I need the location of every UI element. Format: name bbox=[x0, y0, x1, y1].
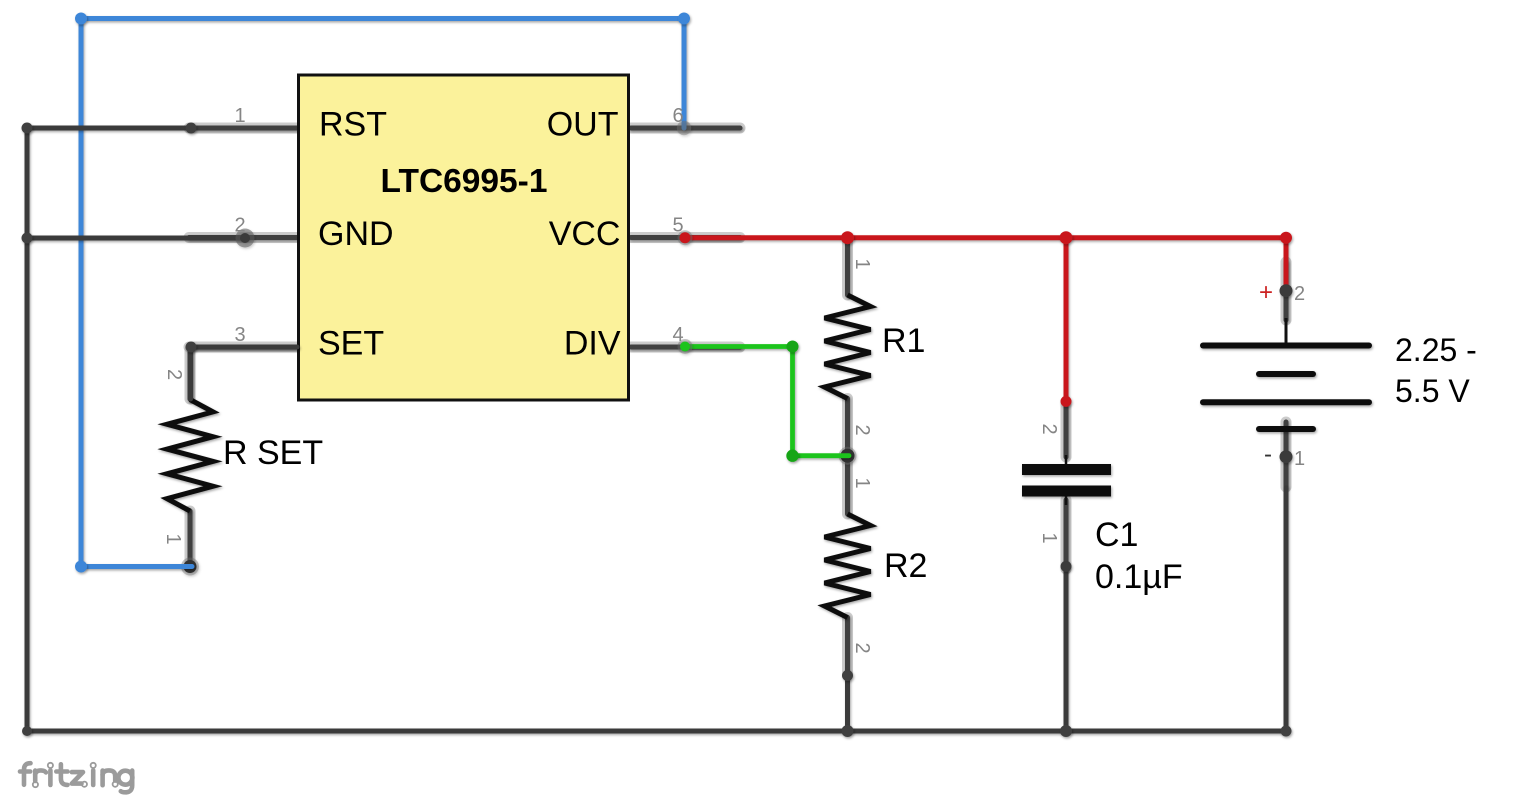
svg-text:1: 1 bbox=[234, 105, 245, 127]
svg-text:1: 1 bbox=[851, 477, 873, 488]
svg-text:1: 1 bbox=[162, 533, 184, 544]
svg-text:-: - bbox=[1264, 441, 1272, 468]
svg-text:VCC: VCC bbox=[549, 215, 621, 253]
svg-text:LTC6995-1: LTC6995-1 bbox=[381, 163, 548, 200]
svg-text:R1: R1 bbox=[882, 322, 925, 360]
svg-text:R2: R2 bbox=[884, 547, 927, 585]
svg-text:+: + bbox=[1259, 279, 1273, 306]
svg-text:RST: RST bbox=[319, 106, 387, 144]
svg-text:5.5 V: 5.5 V bbox=[1395, 373, 1470, 409]
svg-text:GND: GND bbox=[318, 215, 394, 253]
svg-text:3: 3 bbox=[234, 324, 245, 346]
svg-text:4: 4 bbox=[672, 324, 683, 346]
svg-text:2: 2 bbox=[1294, 283, 1305, 305]
svg-text:1: 1 bbox=[1038, 532, 1060, 543]
svg-text:1: 1 bbox=[851, 258, 873, 269]
svg-text:2: 2 bbox=[851, 424, 873, 435]
svg-text:0.1µF: 0.1µF bbox=[1095, 558, 1183, 596]
svg-text:2: 2 bbox=[163, 369, 185, 380]
svg-text:2: 2 bbox=[234, 215, 245, 237]
svg-text:C1: C1 bbox=[1095, 516, 1138, 554]
svg-text:1: 1 bbox=[1294, 448, 1305, 470]
svg-text:2.25 -: 2.25 - bbox=[1395, 332, 1477, 368]
svg-text:R SET: R SET bbox=[223, 434, 323, 472]
svg-text:5: 5 bbox=[672, 215, 683, 237]
svg-text:OUT: OUT bbox=[547, 106, 619, 144]
svg-text:6: 6 bbox=[672, 105, 683, 127]
svg-text:SET: SET bbox=[318, 325, 384, 363]
svg-text:2: 2 bbox=[1038, 423, 1060, 434]
svg-text:2: 2 bbox=[851, 642, 873, 653]
svg-text:DIV: DIV bbox=[564, 325, 621, 363]
